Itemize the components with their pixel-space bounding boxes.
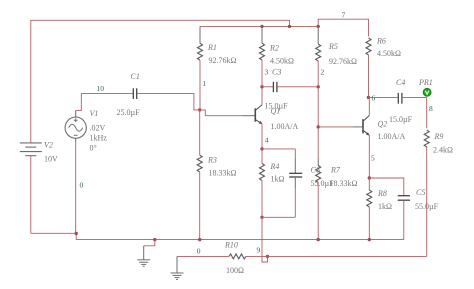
svg-text:1kΩ: 1kΩ [271, 175, 285, 184]
junction dot node 2 lower [317, 125, 320, 128]
resistor R10 [177, 255, 229, 257]
svg-text:R9: R9 [434, 132, 444, 141]
svg-text:55.0µF: 55.0µF [415, 202, 439, 211]
wire R4/C6 bottom [262, 217, 295, 262]
wire Q2 collector [368, 97, 370, 115]
ground G2 [171, 256, 184, 279]
svg-text:0°: 0° [90, 144, 97, 153]
resistor R8 [368, 178, 370, 190]
wire Q1 collector [261, 87, 263, 105]
wire node 7 segment [318, 19, 368, 36]
resistor R4 [261, 149, 263, 164]
wire Q1 emitter [261, 124, 263, 149]
wire V1 top to C1 [76, 94, 134, 111]
svg-text:0: 0 [80, 180, 84, 189]
wire node2 to Q2 base [318, 126, 352, 128]
svg-text:15.0µF: 15.0µF [389, 115, 413, 124]
junction dot node 2 upper [317, 85, 320, 88]
svg-text:1kΩ: 1kΩ [378, 202, 392, 211]
svg-text:55.0µF: 55.0µF [311, 179, 335, 188]
resistor R5 [317, 26, 319, 44]
svg-text:1.00A/A: 1.00A/A [271, 122, 299, 131]
wire V2 bottom [30, 156, 32, 234]
junction dot R4 bottom [260, 216, 263, 219]
svg-text:2: 2 [321, 68, 325, 77]
junction dot R7 bottom [317, 238, 320, 241]
svg-text:18.33kΩ: 18.33kΩ [330, 179, 358, 188]
source V1 [65, 111, 86, 142]
svg-text:PR1: PR1 [418, 78, 433, 87]
svg-text:5: 5 [371, 154, 375, 163]
resistor R6 [366, 38, 371, 55]
svg-text:2.4kΩ: 2.4kΩ [433, 146, 453, 155]
resistor R3 [199, 110, 201, 155]
junction dot R3 bottom [198, 238, 201, 241]
junction dot node 9 [266, 255, 269, 258]
capacitor C5 [369, 178, 404, 196]
svg-text:4: 4 [265, 136, 269, 145]
junction dot rail step [288, 25, 291, 28]
junction dot R8 bottom [368, 238, 371, 241]
svg-text:C4: C4 [396, 78, 405, 87]
svg-text:92.76kΩ: 92.76kΩ [329, 57, 357, 66]
resistor R1 [199, 26, 201, 43]
svg-text:10V: 10V [44, 155, 58, 164]
svg-text:10: 10 [97, 84, 105, 93]
svg-text:7: 7 [342, 11, 346, 20]
svg-text:92.76kΩ: 92.76kΩ [209, 56, 237, 65]
junction dot R2 top [260, 25, 263, 28]
svg-text:R6: R6 [376, 37, 386, 46]
wire top rail [31, 20, 290, 143]
ground G1 [144, 240, 155, 246]
capacitor C3 [262, 86, 273, 88]
svg-text:100Ω: 100Ω [226, 266, 244, 275]
junction dot node 5 [368, 176, 371, 179]
junction dot V1 bottom [75, 232, 78, 235]
resistor R2 [261, 26, 263, 43]
svg-text:C6: C6 [311, 166, 320, 175]
svg-text:R2: R2 [269, 44, 279, 53]
svg-text:R1: R1 [207, 43, 217, 52]
svg-text:C3: C3 [272, 68, 281, 77]
svg-text:25.0µF: 25.0µF [117, 108, 141, 117]
wire R9 bottom feedback [426, 147, 428, 256]
svg-text:18.33kΩ: 18.33kΩ [209, 169, 237, 178]
junction dot node 3 [260, 85, 263, 88]
wire bottom rail [76, 239, 404, 241]
svg-text:Q2: Q2 [378, 120, 388, 129]
svg-text:1kHz: 1kHz [90, 134, 108, 143]
capacitor C4 [368, 97, 398, 99]
battery V2 [20, 143, 42, 156]
transistor Q1 [255, 105, 262, 124]
capacitor C1 [133, 88, 136, 99]
wire C3 to node 2 [277, 86, 318, 88]
wire V1 bottom node 0 [75, 142, 77, 234]
wire bottom rail left [31, 233, 76, 239]
svg-text:C1: C1 [131, 72, 140, 81]
svg-text:4.50kΩ: 4.50kΩ [270, 57, 294, 66]
junction dot R5 top [317, 25, 320, 28]
svg-text:9: 9 [257, 246, 261, 255]
svg-text:.02V: .02V [90, 124, 106, 133]
svg-text:V2: V2 [44, 141, 53, 150]
junction dot node 1 [198, 108, 201, 111]
svg-text:0: 0 [197, 247, 201, 256]
svg-text:R3: R3 [207, 156, 217, 165]
junction dot ground1 [153, 238, 156, 241]
svg-text:1.00A/A: 1.00A/A [378, 132, 406, 141]
wire C1 to node 1 [137, 94, 200, 110]
svg-text:15.0µF: 15.0µF [265, 102, 289, 111]
svg-text:8: 8 [429, 104, 433, 113]
svg-text:R7: R7 [330, 166, 341, 175]
svg-text:R10: R10 [224, 241, 238, 250]
wire node1 to Q1 base [200, 110, 243, 116]
svg-text:1: 1 [203, 79, 207, 88]
resistor R9 [424, 130, 429, 147]
wire Q2 emitter [368, 135, 370, 178]
svg-text:R5: R5 [328, 42, 338, 51]
junction dot node 6 [367, 96, 370, 99]
junction dot node 4 [260, 147, 263, 150]
svg-text:V1: V1 [90, 109, 99, 118]
svg-text:4.50kΩ: 4.50kΩ [377, 49, 401, 58]
svg-text:R4: R4 [270, 162, 280, 171]
wire rail2 R1-R2-R5 tops [200, 25, 318, 27]
wire C4 to node 8 [402, 98, 427, 129]
svg-text:3: 3 [265, 68, 269, 77]
transistor Q2 [363, 115, 369, 135]
svg-text:C5: C5 [416, 188, 425, 197]
svg-text:R8: R8 [377, 189, 387, 198]
resistor R7 [317, 127, 319, 159]
